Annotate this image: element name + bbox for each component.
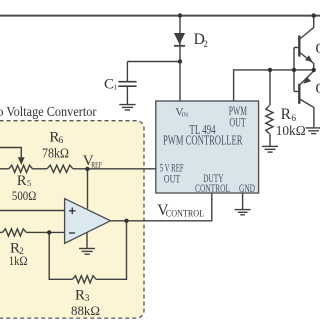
svg-text:GND: GND [239, 181, 255, 195]
svg-text:R: R [17, 173, 27, 189]
svg-text:1kΩ: 1kΩ [9, 253, 28, 268]
svg-text:1: 1 [114, 82, 118, 91]
svg-text:to Voltage Convertor: to Voltage Convertor [0, 104, 97, 119]
svg-text:5: 5 [27, 178, 31, 188]
svg-text:88kΩ: 88kΩ [71, 303, 100, 318]
svg-text:500Ω: 500Ω [12, 189, 36, 203]
svg-text:Q: Q [315, 41, 320, 57]
svg-text:OUT: OUT [164, 172, 181, 186]
svg-text:CONTROL: CONTROL [166, 209, 204, 220]
svg-text:78kΩ: 78kΩ [42, 146, 69, 161]
svg-text:OUT: OUT [229, 116, 246, 130]
svg-text:10kΩ: 10kΩ [276, 123, 306, 138]
svg-text:Q: Q [315, 81, 320, 97]
svg-text:IN: IN [181, 111, 188, 118]
svg-text:C: C [104, 77, 114, 93]
svg-text:R: R [281, 106, 292, 123]
svg-text:2: 2 [203, 39, 208, 49]
svg-text:PWM CONTROLLER: PWM CONTROLLER [163, 132, 243, 147]
svg-text:R: R [75, 288, 85, 304]
svg-text:CONTROL: CONTROL [195, 181, 230, 195]
svg-text:REF: REF [91, 160, 102, 169]
svg-text:6: 6 [59, 136, 64, 146]
